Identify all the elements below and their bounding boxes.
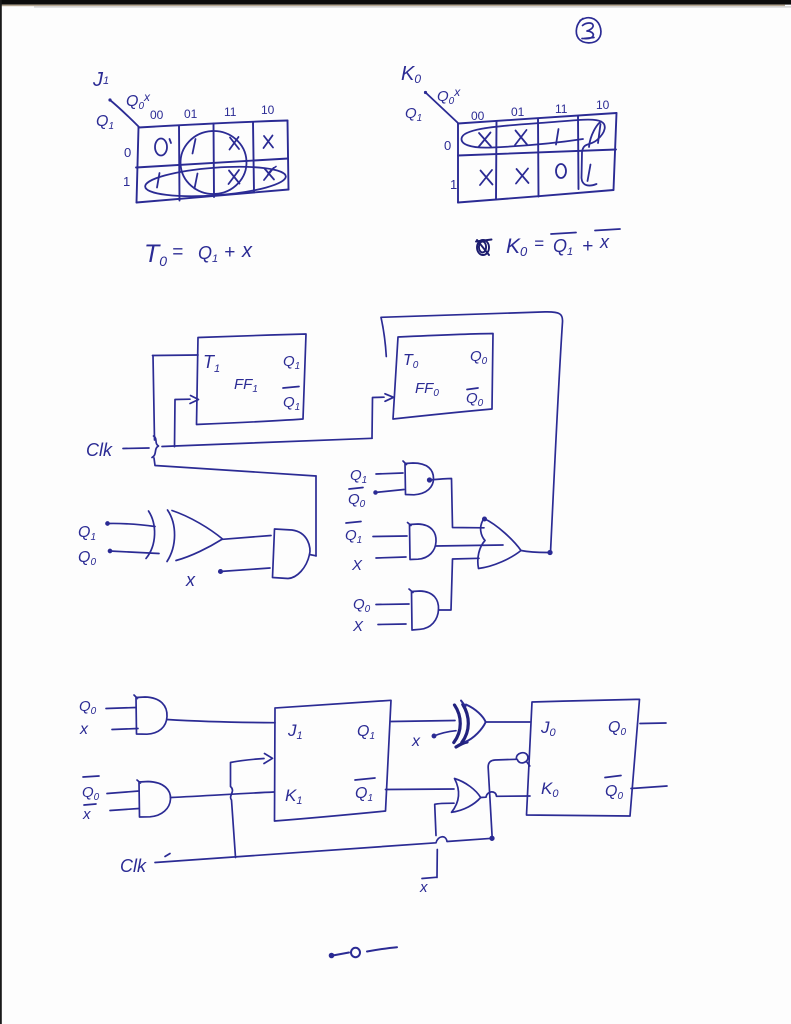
node cell X r0c1 xyxy=(515,130,527,145)
node xbar input label xyxy=(84,804,96,805)
node Q0bar pin label xyxy=(467,388,478,390)
node clk arrow J1K1 xyxy=(264,754,273,764)
svg-text:T0: T0 xyxy=(144,240,167,269)
svg-text:x: x xyxy=(185,570,196,590)
svg-text:Q1: Q1 xyxy=(355,785,373,804)
flip-flop FF1 box xyxy=(197,334,307,425)
svg-text:K1: K1 xyxy=(285,786,302,807)
svg-text:x: x xyxy=(599,232,610,252)
wire xbar riser to or xyxy=(435,803,454,877)
flip-flop FF0 box xyxy=(393,334,493,420)
node cell 1 r0c2 xyxy=(556,129,559,145)
wire Q1bar to and2 xyxy=(373,535,407,538)
node cell X r0c0 xyxy=(479,133,492,148)
group oval row 0 with loop col 10 xyxy=(462,120,605,186)
svg-text:K0: K0 xyxy=(506,235,528,259)
node cell X r1c0 xyxy=(480,170,493,185)
node cell X r1c3 xyxy=(264,168,274,180)
wire Q0bar to andB xyxy=(107,791,139,794)
svg-text:10: 10 xyxy=(596,98,610,112)
node scribble mark xyxy=(476,240,492,256)
node cell 1 r0c3 xyxy=(598,124,601,143)
wire clk riser J1K1 xyxy=(231,759,265,858)
wire X to and3 xyxy=(378,623,406,626)
wire clk lead xyxy=(123,447,149,450)
or gate bottom xyxy=(452,779,481,813)
node cell 1 r1c1 xyxy=(195,174,198,189)
node clk arrow FF1 xyxy=(190,396,199,404)
svg-text:X: X xyxy=(352,618,364,635)
svg-text:Clk: Clk xyxy=(120,856,147,876)
xor gate bottom xyxy=(454,705,469,748)
wire x to and xyxy=(220,568,270,572)
wire x to andA xyxy=(112,729,138,730)
svg-text:Q1: Q1 xyxy=(405,105,422,124)
svg-text:FF1: FF1 xyxy=(234,376,258,395)
wire T1 input feedback xyxy=(153,354,199,357)
wire and3 to or xyxy=(439,558,480,610)
wire xor to and xyxy=(223,536,272,540)
svg-text:Q1: Q1 xyxy=(96,113,114,132)
node cell X r1c1 xyxy=(516,169,529,184)
node cell 0' xyxy=(155,139,171,156)
svg-text:Q1: Q1 xyxy=(283,353,300,372)
or gate U6 xyxy=(478,519,521,569)
node end mark xyxy=(330,947,397,957)
svg-text:01: 01 xyxy=(511,105,525,119)
xor gate U1 left xyxy=(146,511,155,559)
wire clk squiggle xyxy=(152,436,159,458)
wire Q0 to xor xyxy=(110,551,160,554)
node cell 1 r0c1 xyxy=(193,139,196,154)
wire axis diagonal xyxy=(110,100,139,127)
node xbar label bottom xyxy=(422,877,436,878)
svg-text:1: 1 xyxy=(450,177,457,192)
wire Q1 to xor xyxy=(391,721,455,722)
svg-text:11: 11 xyxy=(224,105,237,119)
wire axis diagonal xyxy=(425,92,458,123)
wire clk riser J0K0 xyxy=(488,759,516,838)
svg-text:Q1: Q1 xyxy=(350,467,367,486)
wire clk riser FF1 xyxy=(175,399,191,447)
wire clk main xyxy=(162,438,372,446)
node Q0bar input label xyxy=(349,488,363,490)
svg-text:Q1: Q1 xyxy=(553,236,573,258)
group oval row 1 xyxy=(144,163,287,201)
and gate U3 top right xyxy=(403,461,434,495)
page number circled 3 xyxy=(576,18,601,43)
svg-text:X: X xyxy=(351,557,363,574)
node cell 1 r1c0 xyxy=(157,173,160,188)
node Q1bar input label xyxy=(346,522,361,524)
svg-text:K0: K0 xyxy=(401,63,421,86)
svg-text:Q1: Q1 xyxy=(78,524,96,543)
svg-text:x: x xyxy=(411,733,421,750)
svg-text:J1: J1 xyxy=(92,69,109,91)
wire xor to J0 xyxy=(486,721,530,723)
wire xbar to andB xyxy=(110,809,139,811)
svg-text:Q0: Q0 xyxy=(470,348,488,367)
svg-text:Q1: Q1 xyxy=(345,527,362,546)
and gate U5 bottom right xyxy=(409,589,439,630)
svg-text:J1: J1 xyxy=(287,721,303,742)
kmap grid K1 xyxy=(136,121,289,203)
svg-text:Q1: Q1 xyxy=(357,723,375,742)
svg-text:+: + xyxy=(224,242,235,263)
node clk loop arrow J0K0 xyxy=(516,753,529,766)
svg-text:T1: T1 xyxy=(203,352,220,375)
svg-text:11: 11 xyxy=(555,102,568,116)
svg-text:01: 01 xyxy=(184,107,198,121)
wire Q1bar to or xyxy=(386,788,455,791)
wire clk riser FF0 xyxy=(372,397,384,438)
wire Q0bar output xyxy=(631,786,667,789)
node cell 1 r1c3 xyxy=(588,165,591,182)
node clk arrow FF0 xyxy=(385,394,394,402)
wire or to K0 with hop xyxy=(481,792,530,798)
wire OR output loop to T0 xyxy=(381,312,563,553)
svg-text:Q0: Q0 xyxy=(353,596,371,615)
node Q0bar pin label xyxy=(605,776,621,778)
wire Q0 to and3 xyxy=(376,603,409,606)
svg-text:Q0: Q0 xyxy=(605,783,623,802)
svg-text:+: + xyxy=(582,236,593,257)
wire and1 to or xyxy=(430,479,485,528)
svg-text:x: x xyxy=(241,240,253,262)
wire and output riser xyxy=(310,555,317,556)
node Q0bar input label xyxy=(83,776,99,777)
flip-flop J1K1 box xyxy=(275,700,392,821)
wire or output xyxy=(521,551,551,553)
wire x to xor xyxy=(434,731,456,736)
svg-text:=: = xyxy=(172,242,183,263)
and gate B xyxy=(137,780,171,817)
node Q1bar pin label xyxy=(283,387,299,389)
svg-text:Q0: Q0 xyxy=(78,549,96,568)
svg-text:10: 10 xyxy=(261,103,275,117)
wire clk main bottom xyxy=(155,837,492,863)
wire andB to K1 xyxy=(171,792,275,798)
svg-text:1: 1 xyxy=(123,174,130,189)
svg-text:Q0: Q0 xyxy=(82,784,100,803)
svg-text:T0: T0 xyxy=(403,352,419,371)
wire X to and2 xyxy=(376,557,406,558)
svg-text:x: x xyxy=(82,806,91,823)
wire andA to J1 xyxy=(167,720,275,723)
node equation T0 = Q1 + x xyxy=(144,240,253,269)
wire Q0 output xyxy=(640,722,666,725)
and gate A xyxy=(134,695,167,734)
svg-text:Q1: Q1 xyxy=(283,394,300,413)
svg-text:K0: K0 xyxy=(541,779,559,800)
kmap grid K0 xyxy=(458,113,617,203)
node cell X r1c2 xyxy=(229,170,240,184)
svg-text:Clk: Clk xyxy=(86,440,113,460)
svg-text:Q0: Q0 xyxy=(348,491,366,510)
svg-text:Q0: Q0 xyxy=(79,698,97,717)
node cell X r0c3 xyxy=(264,136,274,149)
svg-text:Q0: Q0 xyxy=(608,719,626,738)
wire and2 to or xyxy=(436,545,504,546)
node cell 0 r1c2 xyxy=(556,164,566,178)
svg-text:FF0: FF0 xyxy=(415,380,439,399)
wire Q1 to and1 xyxy=(376,473,403,474)
svg-text:Q0x: Q0x xyxy=(126,90,151,112)
and gate U4 middle right xyxy=(408,523,437,560)
svg-text:0: 0 xyxy=(444,138,451,153)
svg-text:x: x xyxy=(79,721,89,738)
svg-text:Q0x: Q0x xyxy=(437,85,461,107)
node equation K0 = Q1bar + xbar xyxy=(506,229,620,259)
svg-text:=: = xyxy=(534,234,544,253)
svg-text:0: 0 xyxy=(124,145,131,160)
node Q1bar pin label xyxy=(355,778,375,780)
wire Q0 to andA xyxy=(106,708,136,709)
svg-text:Q1: Q1 xyxy=(198,243,218,265)
svg-text:Q0: Q0 xyxy=(466,390,484,409)
group oval columns 01-11 xyxy=(179,129,248,195)
node cell X r0c2 xyxy=(230,137,240,150)
svg-text:x: x xyxy=(419,879,428,896)
flip-flop J0K0 box xyxy=(527,699,640,816)
svg-text:00: 00 xyxy=(150,108,164,122)
wire Q0bar to and1 xyxy=(375,490,404,493)
wire Q1 to xor xyxy=(107,523,155,526)
svg-text:J0: J0 xyxy=(540,718,557,739)
and gate U2 left xyxy=(273,529,311,579)
